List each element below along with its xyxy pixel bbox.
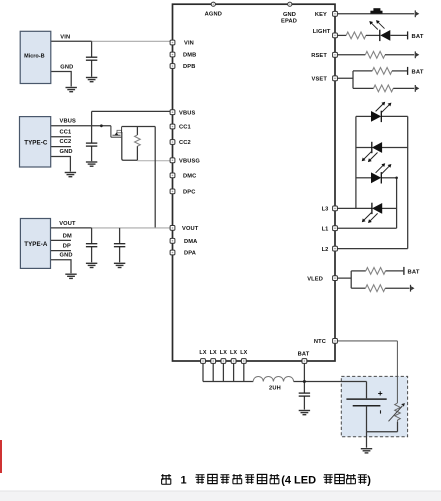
svg-text:DMB: DMB: [183, 53, 196, 59]
svg-text:LX: LX: [240, 350, 247, 356]
svg-text:2UH: 2UH: [269, 385, 281, 391]
svg-text:DMC: DMC: [183, 174, 196, 180]
svg-text:DPA: DPA: [184, 251, 196, 257]
svg-text:+: +: [378, 388, 383, 398]
svg-text:VSET: VSET: [312, 77, 328, 83]
svg-text:GND: GND: [60, 253, 73, 259]
svg-text:VLED: VLED: [307, 276, 323, 282]
svg-text:(4 LED: (4 LED: [281, 475, 316, 487]
svg-text:CC2: CC2: [179, 140, 191, 146]
svg-text:DPC: DPC: [183, 190, 195, 196]
svg-text:VBUSG: VBUSG: [179, 159, 200, 165]
svg-text:GND: GND: [60, 65, 73, 71]
svg-text:DP: DP: [63, 244, 71, 250]
svg-text:CC2: CC2: [60, 139, 72, 145]
svg-text:AGND: AGND: [205, 12, 222, 18]
svg-text:NTC: NTC: [314, 339, 326, 345]
svg-text:VOUT: VOUT: [182, 226, 199, 232]
svg-text:TYPE-A: TYPE-A: [24, 241, 48, 248]
svg-text:): ): [367, 475, 371, 487]
svg-text:DMA: DMA: [184, 239, 197, 245]
svg-text:VIN: VIN: [60, 34, 70, 40]
svg-text:VBUS: VBUS: [179, 110, 195, 116]
svg-text:BAT: BAT: [412, 70, 424, 76]
svg-text:LIGHT: LIGHT: [313, 29, 331, 35]
svg-text:TYPE-C: TYPE-C: [24, 139, 48, 146]
svg-text:CC1: CC1: [60, 129, 72, 135]
svg-text:DM: DM: [63, 233, 72, 239]
svg-text:RSET: RSET: [311, 53, 327, 59]
svg-text:GND: GND: [60, 149, 73, 155]
svg-text:KEY: KEY: [315, 12, 327, 18]
svg-text:VIN: VIN: [184, 41, 194, 47]
svg-text:EPAD: EPAD: [281, 19, 297, 25]
svg-text:BAT: BAT: [298, 351, 310, 357]
svg-text:LX: LX: [220, 350, 227, 356]
svg-text:LX: LX: [230, 350, 237, 356]
svg-text:VBUS: VBUS: [60, 119, 76, 125]
svg-text:CC1: CC1: [179, 125, 191, 131]
svg-text:LX: LX: [210, 350, 217, 356]
svg-text:LX: LX: [199, 350, 206, 356]
svg-text:1: 1: [181, 475, 187, 487]
svg-text:L3: L3: [322, 207, 329, 213]
svg-text:BAT: BAT: [408, 270, 420, 276]
svg-text:GND: GND: [283, 12, 296, 18]
svg-text:Micro-B: Micro-B: [24, 54, 44, 60]
svg-text:BAT: BAT: [412, 34, 424, 40]
svg-text:L2: L2: [322, 247, 329, 253]
svg-text:DPB: DPB: [183, 64, 195, 70]
svg-text:L1: L1: [322, 226, 329, 232]
svg-text:VOUT: VOUT: [59, 221, 76, 227]
